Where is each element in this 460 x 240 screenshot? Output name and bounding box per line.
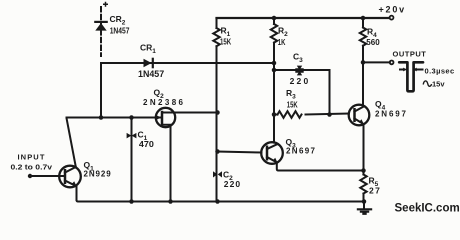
svg-text:0.3µsec: 0.3µsec (425, 67, 455, 76)
svg-text:OUTPUT: OUTPUT (393, 50, 427, 59)
svg-text:0.2 to 0.7v: 0.2 to 0.7v (11, 163, 54, 172)
svg-text:1K: 1K (278, 37, 286, 47)
svg-text:1N457: 1N457 (138, 69, 164, 79)
svg-text:INPUT: INPUT (18, 153, 46, 162)
svg-text:+20v: +20v (379, 5, 406, 15)
svg-text:220: 220 (224, 179, 241, 189)
svg-text:2N697: 2N697 (286, 147, 316, 156)
svg-text:SeekIC.com: SeekIC.com (395, 203, 460, 215)
svg-text:1N457: 1N457 (110, 26, 130, 35)
svg-text:15K: 15K (220, 37, 232, 47)
svg-text:27: 27 (369, 186, 380, 196)
svg-text:15v: 15v (432, 80, 445, 89)
svg-text:560: 560 (366, 37, 380, 47)
svg-text:220: 220 (290, 76, 309, 86)
svg-text:15K: 15K (287, 100, 298, 110)
svg-text:2N929: 2N929 (84, 170, 112, 179)
svg-text:470: 470 (139, 139, 154, 149)
